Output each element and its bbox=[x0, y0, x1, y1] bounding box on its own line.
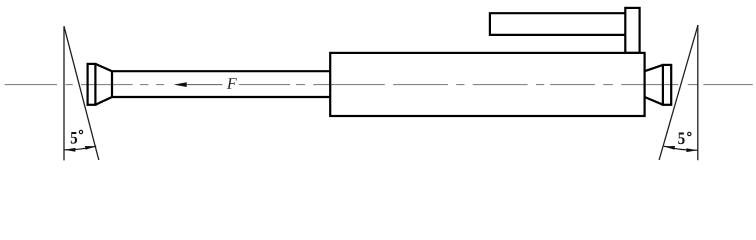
right angle arrowhead (at inclined line) bbox=[664, 146, 675, 150]
left angle arrowhead (at vertical line) bbox=[64, 148, 75, 152]
left angle arrowhead (at inclined line) bbox=[85, 146, 96, 150]
handle tube bbox=[490, 13, 625, 35]
left cone (cap to rod taper) bbox=[95, 64, 112, 105]
left wall vertical line bbox=[63, 26, 65, 160]
left contact cap bbox=[88, 64, 96, 105]
right wall inclined line (5 deg surface) bbox=[659, 25, 698, 160]
rod left end junction line bbox=[111, 71, 113, 97]
centerline (dash-dot axis) bbox=[5, 84, 753, 86]
left wall inclined line (5 deg surface) bbox=[64, 26, 99, 160]
right angle dimension arc bbox=[664, 146, 698, 150]
right wall vertical line bbox=[697, 25, 699, 160]
left angle dimension arc bbox=[64, 146, 96, 150]
right label 5deg bbox=[678, 133, 684, 145]
main body (cylinder) bbox=[330, 53, 644, 116]
handle end block bbox=[625, 8, 639, 53]
right angle arrowhead (at vertical line) bbox=[686, 148, 697, 152]
force arrow F bbox=[180, 84, 222, 86]
right cone (body to cap taper) bbox=[645, 65, 663, 105]
right contact cap bbox=[663, 65, 671, 105]
left label 5deg bbox=[71, 132, 77, 144]
force label F bbox=[227, 78, 237, 88]
rod (measuring stem) bbox=[112, 71, 330, 97]
device outline bbox=[88, 8, 672, 116]
